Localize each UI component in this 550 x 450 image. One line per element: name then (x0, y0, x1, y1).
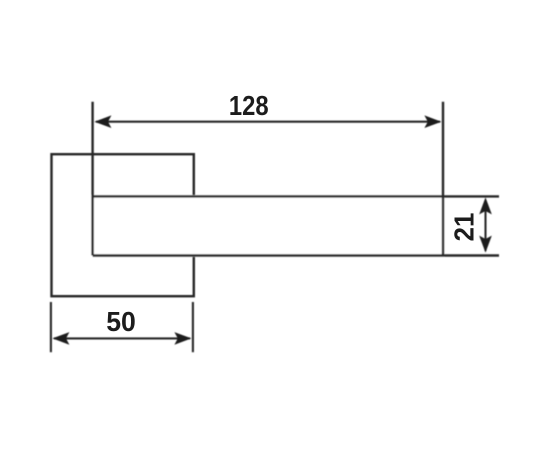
svg-text:128: 128 (229, 89, 269, 121)
svg-text:50: 50 (106, 305, 136, 337)
svg-text:21: 21 (449, 213, 480, 242)
